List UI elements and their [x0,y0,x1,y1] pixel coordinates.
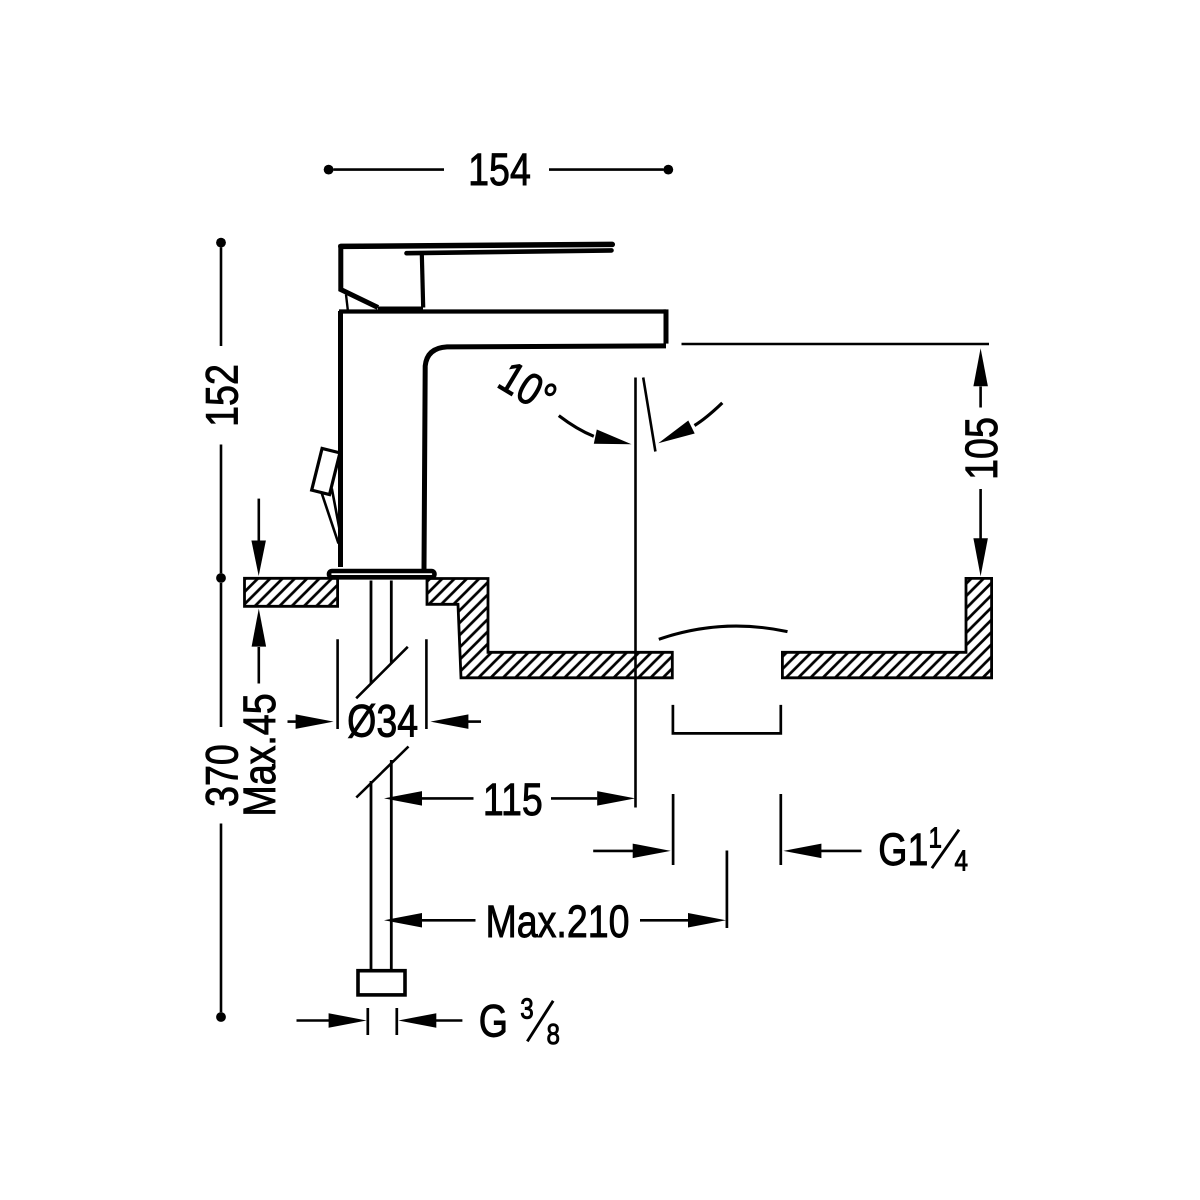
spout bottom edge and body front edge [424,346,666,569]
svg-text:G: G [479,995,508,1046]
svg-text:8: 8 [546,1018,559,1051]
dimension G1 1/4 arrows [593,844,861,859]
svg-text:Max.210: Max.210 [485,896,629,947]
dimension G3/8 arrows [297,1013,463,1028]
dimension 115 label [483,774,543,825]
svg-text:154: 154 [468,144,531,195]
G3/8 hose connector [358,971,405,995]
dimension 154 line and dots [324,165,673,175]
svg-text:1: 1 [928,822,941,855]
spout top and right edge [339,309,666,343]
lever left small edge [346,295,348,311]
faucet lever handle outline [341,244,613,307]
dimension 105 label [956,417,1007,480]
angle 10 degree label [490,351,565,424]
dimension Max.210 line and arrows [384,913,726,928]
spout outlet centerline [634,378,637,808]
svg-text:115: 115 [483,774,543,825]
dimension Max.45 arrows [251,499,266,684]
spout height extension line [682,343,990,346]
angle arc right with arrow [658,403,722,443]
pop-up rod [322,489,342,544]
dimension 152 line and dots [216,238,226,583]
pipe break slash lower [356,747,408,798]
dimension diameter 34 arrows [288,714,482,729]
svg-text:Ø34: Ø34 [347,695,418,746]
basin right section (hatched) [782,578,991,677]
basin middle section (hatched) [427,579,672,678]
cartridge top edge [378,306,423,310]
countertop left section (hatched) [245,578,338,606]
svg-text:G1: G1 [878,824,928,875]
dimension 115 line and arrows [384,791,635,806]
dimension 152 label [196,364,247,427]
dimension diameter 34 extension lines [338,639,427,729]
dimension 370 label [196,744,247,807]
pop-up rod knob [312,448,340,494]
angle arc left with arrow [559,416,632,445]
dimension 154 label [468,144,531,195]
dimension Max.45 label [234,693,285,816]
drain hole bracket [673,705,781,734]
supply pipe right [390,581,393,970]
dimension G1 1/4 label [878,822,968,877]
supply pipe left [370,581,373,970]
drain centerline [726,851,729,929]
svg-text:152: 152 [196,364,247,427]
dimension G3/8 label [479,993,560,1051]
faucet lever bottom edge [407,250,612,253]
dimension 370 line and dot [216,583,226,1022]
svg-text:3: 3 [520,993,533,1026]
svg-text:105: 105 [956,417,1007,480]
dimension 105 line and arrows [973,348,988,576]
dimension Max.210 label [485,896,629,947]
svg-text:Max.45: Max.45 [234,693,285,816]
G1 1/4 extension ticks [673,794,781,865]
base plate [329,571,435,577]
dimension diameter 34 label [347,695,418,746]
svg-text:4: 4 [954,844,968,877]
cartridge front edge [422,254,423,308]
tilted 10 degree line [643,378,655,452]
body left edge [338,311,343,567]
pipe break slash upper [356,647,408,699]
water surface arc [659,626,788,639]
G3/8 extension ticks [368,1008,397,1035]
